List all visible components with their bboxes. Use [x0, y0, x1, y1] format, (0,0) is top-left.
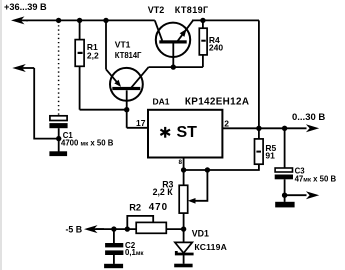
potentiometer R3 [179, 185, 188, 229]
wire VT1 collector / VT2 base / R4 [149, 66, 203, 68]
C2 label [125, 241, 144, 257]
wire common down [34, 68, 59, 139]
capacitor C1 [49, 116, 67, 152]
capacitor C2 [105, 229, 123, 264]
resistor R1 [75, 20, 84, 109]
scan edge artifact [0, 0, 2, 270]
junction VT1 emitter/rail [103, 18, 108, 23]
svg-text:47мк x 50 В: 47мк x 50 В [295, 175, 337, 184]
ground under C1 [49, 151, 67, 156]
C3 label [295, 166, 337, 183]
junction wiper wire [205, 167, 210, 172]
VT2 label [148, 5, 209, 15]
svg-text:ST: ST [177, 124, 198, 141]
DA1 * ST marking [160, 124, 197, 141]
svg-text:470: 470 [149, 202, 168, 213]
svg-text:91: 91 [265, 151, 275, 161]
DA1 label [153, 97, 250, 108]
wire rail down to output [258, 20, 260, 128]
VT1 label [115, 39, 142, 60]
svg-text:2: 2 [224, 119, 229, 129]
svg-text:240: 240 [209, 43, 223, 53]
svg-text:VT2: VT2 [148, 5, 165, 15]
wire dotted to C1 [58, 21, 60, 116]
junction C2 [111, 226, 116, 231]
svg-text:КТ814Г: КТ814Г [115, 51, 142, 60]
R1 label [87, 42, 99, 60]
input terminal arrow +36V [11, 16, 28, 24]
output terminal arrow 0...30V [306, 124, 319, 132]
svg-text:4700 мк x 50 В: 4700 мк x 50 В [61, 138, 114, 147]
wire output common [285, 194, 307, 196]
svg-text:8: 8 [179, 159, 183, 166]
svg-text:0,1мк: 0,1мк [125, 248, 144, 257]
resistor R5 [184, 128, 264, 170]
wire rail right segment [192, 19, 259, 21]
ground under C2 [104, 264, 123, 268]
svg-text:2,2 К: 2,2 К [153, 187, 174, 197]
VD1 label [192, 228, 227, 252]
wire -5V rail [96, 228, 136, 230]
zener diode VD1 [175, 229, 194, 264]
wire pin 8 [183, 158, 185, 186]
junction output/R5 [256, 126, 261, 131]
svg-text:VT1: VT1 [115, 39, 131, 49]
R4 label [209, 35, 223, 53]
junction output/C3 [282, 126, 287, 131]
svg-text:VD1: VD1 [192, 228, 209, 238]
wire pin 2 output [222, 127, 306, 129]
R3 label [153, 179, 174, 197]
junction VT1 base / R1 [124, 107, 129, 112]
svg-text:КТ819Г: КТ819Г [175, 5, 209, 15]
svg-text:17: 17 [136, 118, 146, 128]
R3 wiper arrow [188, 198, 196, 204]
svg-text:2,2: 2,2 [87, 50, 99, 60]
svg-text:-5 В: -5 В [66, 224, 83, 234]
op-amp U1 / regulator DA1 box [148, 110, 222, 158]
input terminal arrow common [12, 64, 34, 72]
junction C1/rail [56, 18, 61, 23]
transistor VT2 [155, 20, 193, 67]
wire R3 wiper [191, 170, 208, 201]
junction R2 tap [125, 226, 130, 231]
junction VT2 base [171, 64, 176, 69]
resistor R2 [136, 222, 183, 233]
junction R2/R3/VD1 [181, 226, 186, 231]
svg-text:КР142ЕН12А: КР142ЕН12А [185, 97, 249, 108]
capacitor C3 [275, 128, 293, 202]
svg-text:КС119А: КС119А [194, 242, 227, 252]
svg-text:R2: R2 [129, 202, 141, 212]
junction R1/rail [77, 18, 82, 23]
C1 value label [61, 131, 114, 148]
ground under VD1 [174, 264, 192, 268]
svg-text:0...30 В: 0...30 В [292, 112, 325, 123]
junction pin8/R3 [181, 167, 186, 172]
R2 label [129, 202, 168, 213]
wire VT1 base to pin 17 [127, 127, 148, 129]
output terminal arrow common [306, 191, 319, 199]
ground under C3 [275, 202, 294, 208]
resistor R4 [199, 20, 207, 67]
junction C1 bottom [56, 136, 61, 141]
wire R1 to VT1 base node [80, 109, 127, 111]
junction VT2 emitter/R4 [200, 18, 205, 23]
junction C3 bottom / output common [282, 193, 287, 198]
input terminal arrow -5V [84, 225, 104, 233]
svg-text:+36...39 В: +36...39 В [4, 2, 47, 12]
svg-text:DA1: DA1 [153, 97, 170, 107]
wire top rail [26, 19, 155, 21]
transistor VT1 [106, 20, 149, 127]
R5 label [265, 143, 276, 161]
wire R2 tap loop [127, 216, 153, 229]
